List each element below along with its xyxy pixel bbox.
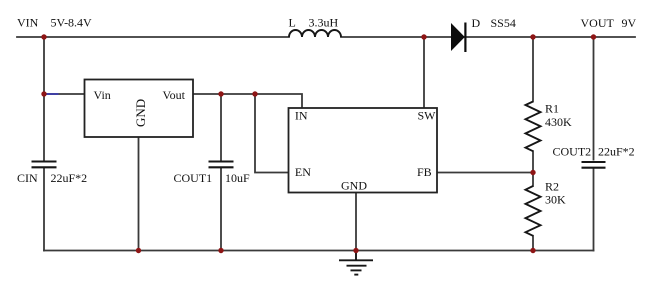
svg-text:3.3uH: 3.3uH (309, 16, 339, 30)
svg-text:IN: IN (295, 109, 308, 123)
svg-text:Vin: Vin (94, 88, 111, 102)
svg-text:SW: SW (418, 109, 437, 123)
svg-text:SS54: SS54 (491, 16, 516, 30)
svg-text:VOUT: VOUT (581, 16, 615, 30)
svg-text:EN: EN (295, 165, 311, 179)
svg-text:GND: GND (133, 99, 148, 127)
svg-text:GND: GND (341, 179, 367, 193)
svg-text:22uF*2: 22uF*2 (598, 144, 635, 158)
svg-text:R1: R1 (545, 101, 559, 115)
svg-text:5V-8.4V: 5V-8.4V (51, 16, 93, 30)
svg-text:COUT2: COUT2 (553, 144, 592, 158)
svg-text:COUT1: COUT1 (174, 171, 213, 185)
svg-text:R2: R2 (545, 180, 559, 194)
svg-text:430K: 430K (545, 115, 572, 129)
svg-text:D: D (472, 16, 481, 30)
svg-text:L: L (289, 16, 296, 30)
svg-text:Vout: Vout (163, 88, 186, 102)
svg-text:VIN: VIN (17, 16, 39, 30)
svg-text:30K: 30K (545, 193, 566, 207)
svg-text:10uF: 10uF (225, 171, 250, 185)
svg-text:22uF*2: 22uF*2 (51, 171, 88, 185)
svg-text:FB: FB (417, 165, 432, 179)
svg-text:CIN: CIN (17, 171, 38, 185)
svg-text:9V: 9V (622, 16, 637, 30)
